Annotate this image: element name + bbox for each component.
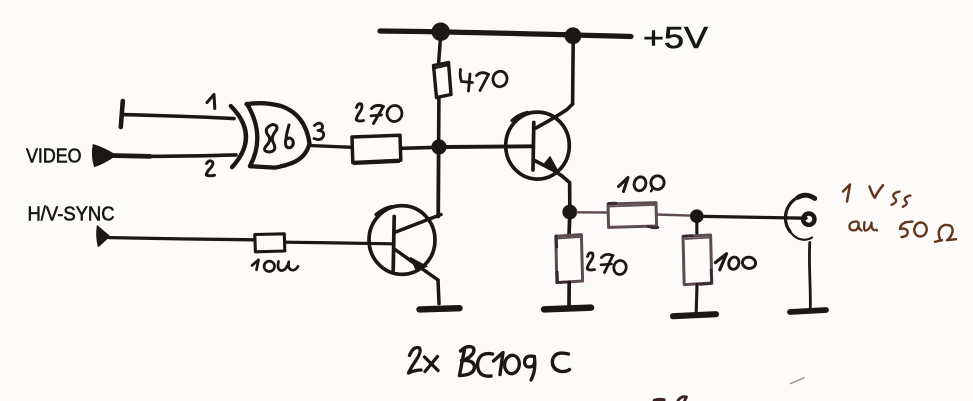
- resistor R4 100 series: [608, 203, 658, 228]
- wire Q2 emitter to node B: [562, 176, 570, 206]
- wire R5 to ground: [695, 284, 699, 313]
- value label 270 (R2): [356, 104, 403, 124]
- VIDEO input arrow: [92, 145, 113, 167]
- transistor Q1 body: [369, 206, 435, 275]
- svg-text:H/V-SYNC: H/V-SYNC: [28, 203, 115, 225]
- ground (R3): [544, 308, 591, 310]
- wire connector to ground: [808, 243, 812, 309]
- pin label 3 (XOR): [314, 123, 324, 139]
- svg-text:+5V: +5V: [643, 21, 709, 55]
- resistor R5 100 shunt: [683, 235, 712, 285]
- wire R2 to node A: [401, 146, 434, 151]
- wire node B down to R3: [567, 219, 571, 236]
- XOR gate U1 body: [247, 103, 310, 167]
- label H/V-SYNC: [28, 203, 115, 225]
- pin label 1 (XOR): [207, 95, 215, 109]
- svg-text:VIDEO: VIDEO: [26, 145, 82, 167]
- H/V-SYNC input arrow: [97, 226, 110, 247]
- top input stub terminal: [121, 101, 123, 127]
- wire XOR out to R2: [310, 146, 353, 148]
- Q2 collector stroke: [535, 104, 573, 129]
- net label +5V: [643, 21, 709, 55]
- output connector pin circle: [803, 214, 814, 225]
- wire R1 to node A: [437, 98, 441, 147]
- resistor R3 270 shunt: [556, 235, 583, 283]
- Q1 base bar: [393, 217, 394, 271]
- wire VIDEO to XOR pin 2: [111, 155, 236, 157]
- wire H/V-SYNC to C1: [110, 238, 255, 240]
- wire R4 to node C: [657, 215, 690, 216]
- value label 100 (R4): [619, 174, 666, 192]
- annotation 1Vss an 50R: [843, 185, 956, 242]
- wire node A down to Q1 collector: [436, 154, 440, 217]
- annotation 2x BC109C: [409, 347, 570, 380]
- ground (Q1 emitter): [420, 308, 460, 309]
- value label 270 (R3): [587, 253, 627, 276]
- gate label 86: [265, 125, 294, 153]
- output connector shell arc: [785, 195, 814, 240]
- XOR gate U1 input arc: [231, 106, 246, 167]
- wire R3 to ground: [567, 282, 571, 306]
- wire node C to connector: [704, 216, 807, 218]
- value label 470: [460, 70, 508, 92]
- Q2 base bar: [531, 123, 535, 171]
- resistor R1 470: [434, 63, 452, 98]
- value label 10u: [252, 260, 298, 272]
- junction rail/Q2 collector: [565, 27, 582, 44]
- Q1 emitter stroke: [395, 250, 438, 281]
- junction node C: [690, 209, 704, 223]
- wire stub to XOR pin 1: [122, 115, 234, 119]
- +5V power rail: [380, 31, 631, 37]
- junction rail/R1: [432, 23, 450, 41]
- value label 100 (R5): [716, 254, 757, 271]
- pin label 2 (XOR): [206, 161, 214, 176]
- resistor R2 270: [352, 135, 401, 164]
- Q2 emitter stroke: [535, 157, 563, 177]
- stray tick (right): [791, 378, 805, 384]
- wire rail to R1: [439, 40, 441, 64]
- ground (R5): [673, 314, 716, 316]
- junction node A: [431, 139, 446, 154]
- transistor Q2 body: [506, 112, 570, 179]
- ground (connector): [790, 310, 826, 312]
- wire node A to Q2 base: [446, 144, 533, 149]
- stray mark (bottom): [653, 397, 687, 401]
- wire node B to R4: [577, 211, 608, 214]
- junction node B: [562, 205, 577, 220]
- label VIDEO: [26, 145, 82, 167]
- wire Q2 collector to rail: [571, 40, 575, 104]
- Q1 collector stroke: [395, 215, 442, 233]
- capacitor C1 10u: [255, 234, 285, 252]
- wire Q1 emitter to ground: [438, 280, 439, 304]
- wire node C down to R5: [695, 223, 698, 236]
- wire C1 to Q1 base: [285, 242, 392, 244]
